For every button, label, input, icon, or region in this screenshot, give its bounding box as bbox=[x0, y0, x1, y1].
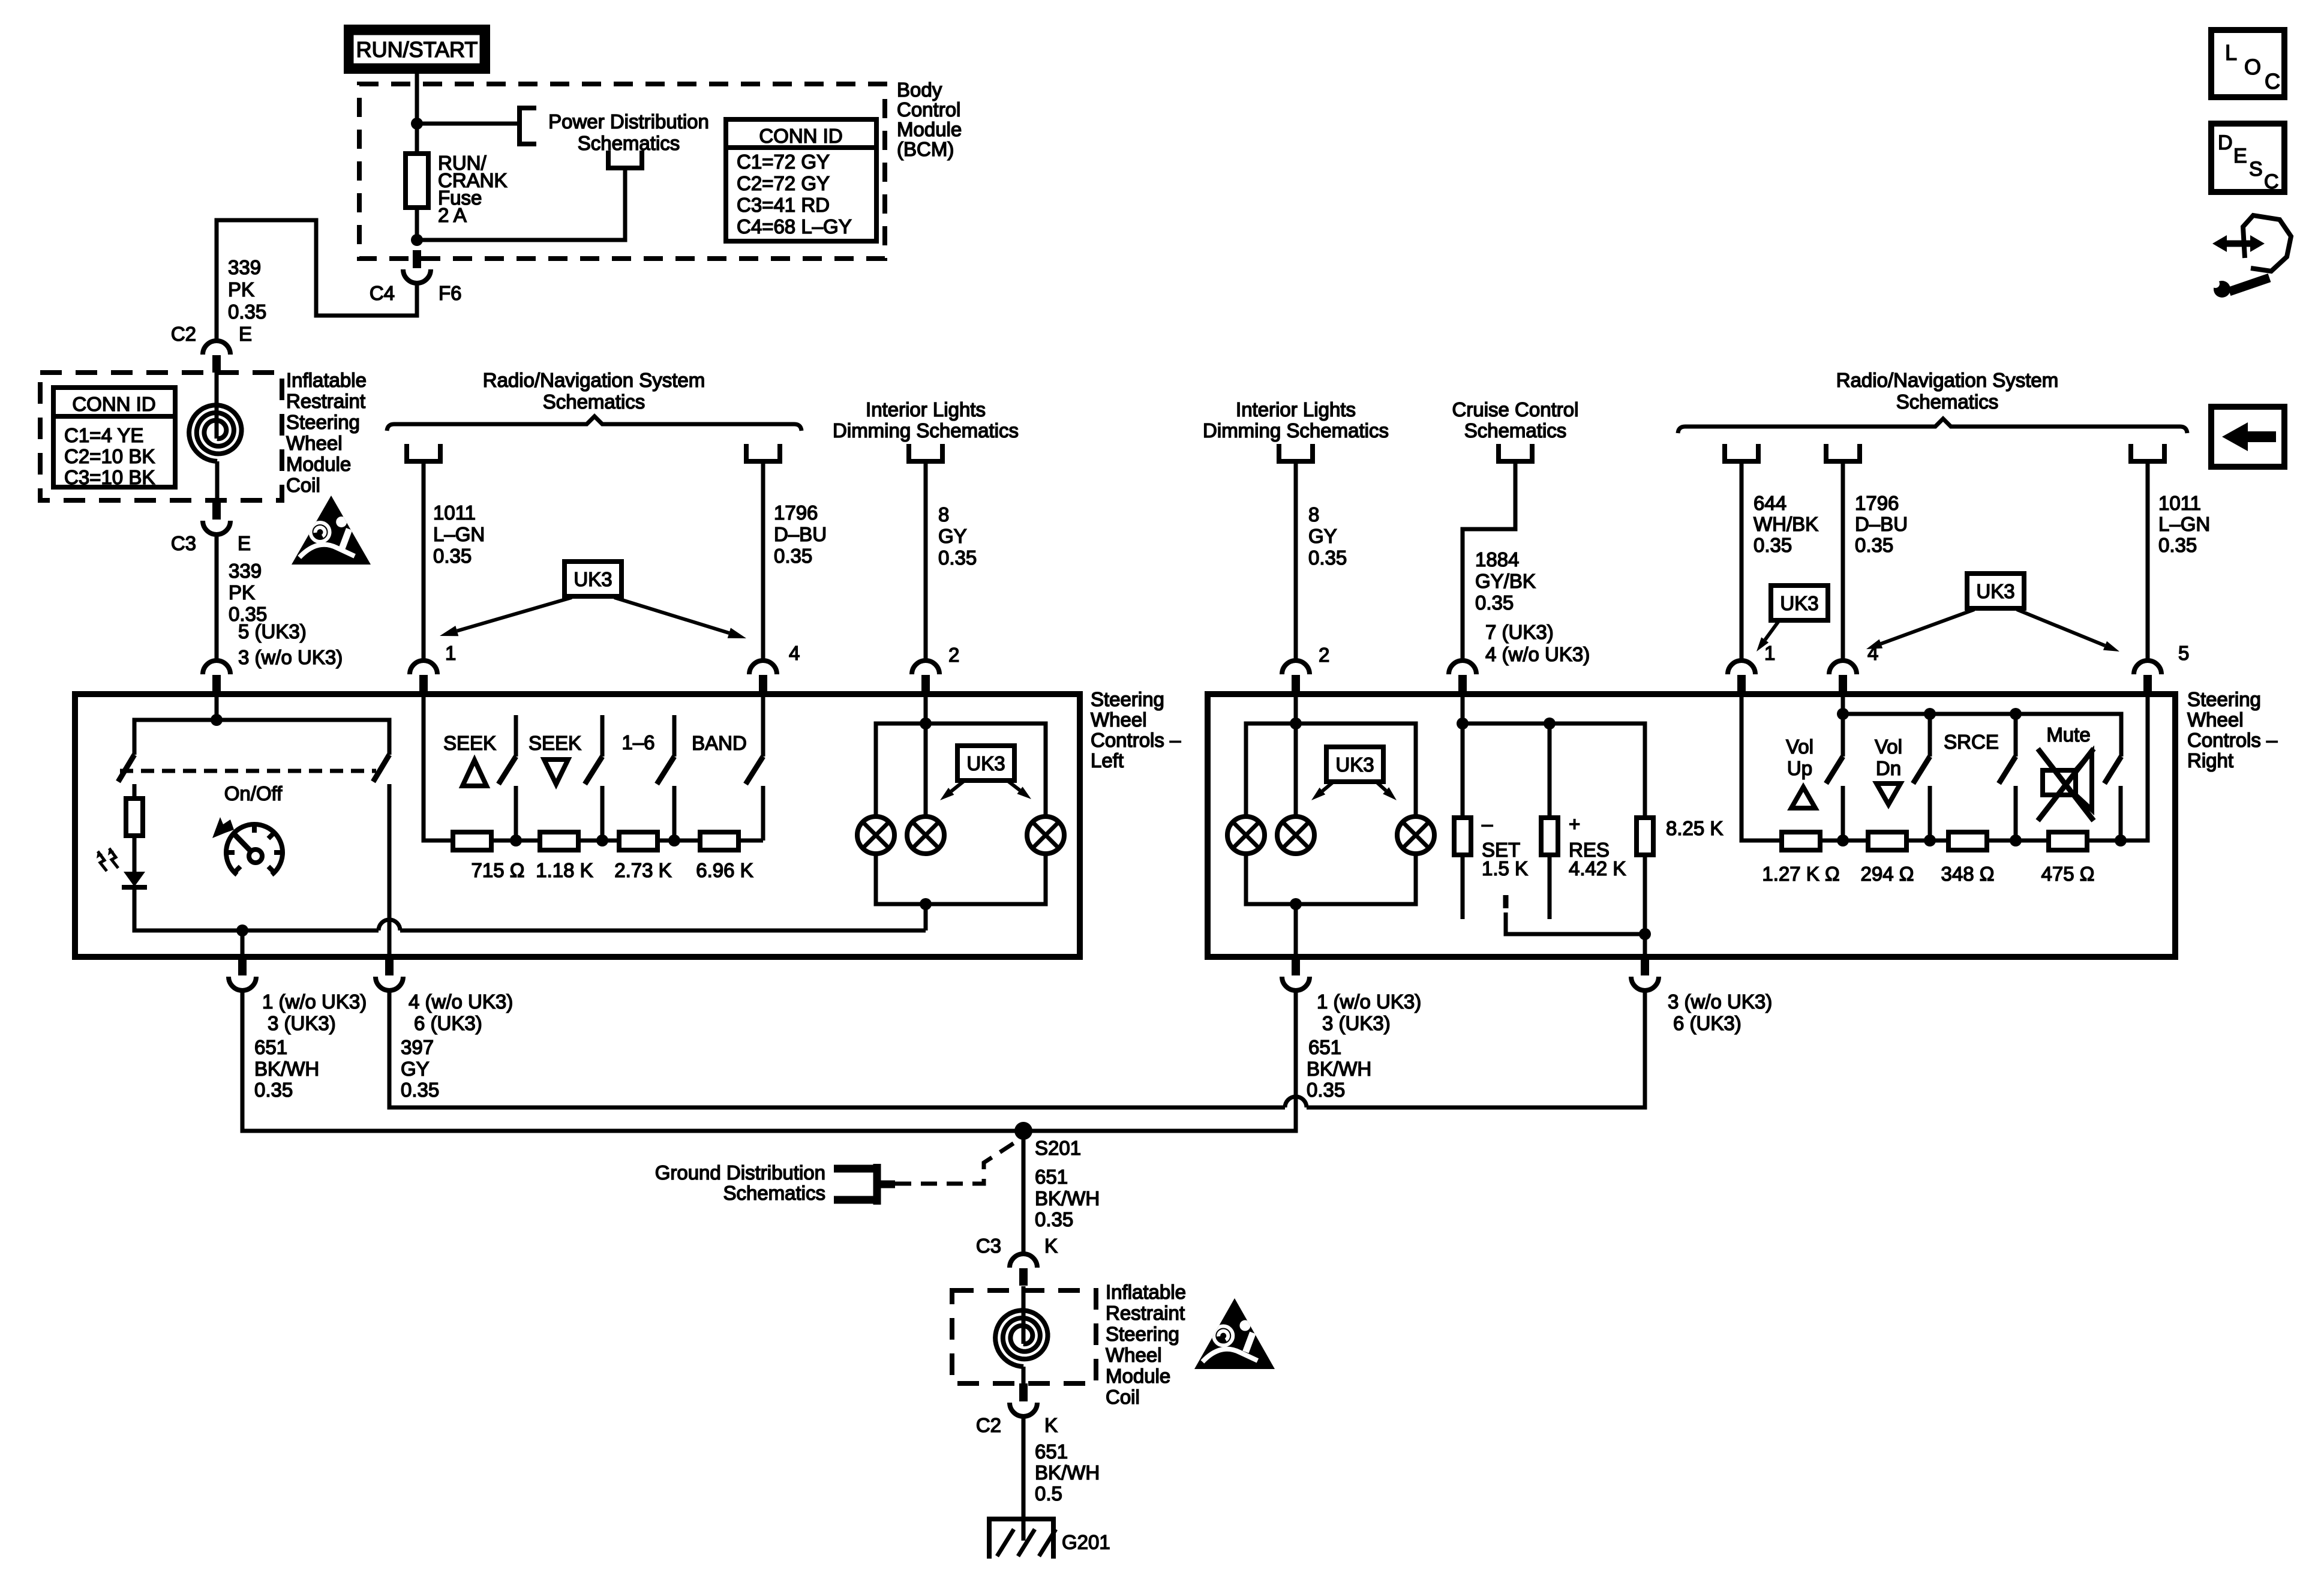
svg-text:1.27 K Ω: 1.27 K Ω bbox=[1762, 863, 1839, 885]
svg-text:2: 2 bbox=[1319, 644, 1329, 666]
wire hop over on/off right leg bbox=[379, 920, 400, 930]
svg-text:BK/WH: BK/WH bbox=[254, 1058, 319, 1080]
resistor SET 1.5K bbox=[1454, 818, 1471, 855]
svg-text:UK3: UK3 bbox=[1780, 592, 1818, 614]
BCM dashed box bbox=[359, 84, 885, 259]
on/off switch left contact bbox=[118, 755, 134, 782]
wire lamps to return bbox=[924, 904, 928, 930]
switch Mute bbox=[2104, 757, 2121, 784]
svg-text:3 (UK3): 3 (UK3) bbox=[1322, 1012, 1391, 1034]
wire out of coil bbox=[215, 461, 220, 502]
svg-text:Dimming Schematics: Dimming Schematics bbox=[1203, 419, 1389, 442]
svg-text:0.35: 0.35 bbox=[938, 547, 977, 569]
wire pin5/3 into box bbox=[215, 694, 219, 720]
svg-text:Schematics: Schematics bbox=[723, 1182, 825, 1204]
junction dot to pin1/3 exit bbox=[236, 924, 248, 936]
svg-text:3 (w/o UK3): 3 (w/o UK3) bbox=[1668, 990, 1772, 1013]
svg-text:1884: 1884 bbox=[1475, 548, 1519, 571]
svg-text:651: 651 bbox=[1035, 1440, 1068, 1463]
svg-text:L–GN: L–GN bbox=[433, 523, 485, 545]
switch 1-6 bbox=[672, 715, 677, 757]
wire out of coil 2 bbox=[1022, 1367, 1026, 1383]
svg-text:C2: C2 bbox=[171, 323, 196, 345]
svg-text:On/Off: On/Off bbox=[224, 782, 283, 804]
UK3 arrow to pin4 wire bbox=[614, 598, 729, 633]
resistor 2.73K bbox=[619, 832, 657, 850]
svg-text:Schematics: Schematics bbox=[578, 132, 680, 154]
UK3 arrow to pin1 wire bbox=[457, 598, 572, 631]
resistor 348 ohm bbox=[1948, 832, 1987, 850]
bracket radio 1796 wire bbox=[1826, 444, 1860, 461]
svg-text:Module: Module bbox=[286, 453, 351, 475]
svg-text:Schematics: Schematics bbox=[1464, 419, 1567, 442]
connector pin4 right box bbox=[1829, 661, 1857, 674]
svg-text:6 (UK3): 6 (UK3) bbox=[1673, 1012, 1742, 1034]
junction dot tap1 bbox=[510, 834, 522, 846]
wire res branch bbox=[1548, 724, 1552, 818]
connector pin1 left box bbox=[410, 661, 437, 674]
svg-text:348 Ω: 348 Ω bbox=[1941, 863, 1995, 885]
svg-text:Control: Control bbox=[897, 98, 960, 121]
svg-text:2.73 K: 2.73 K bbox=[614, 859, 671, 881]
svg-text:Radio/Navigation System: Radio/Navigation System bbox=[1836, 369, 2059, 391]
svg-text:2 A: 2 A bbox=[438, 204, 467, 226]
connector pin 5/3 left box bbox=[203, 661, 230, 674]
switch Vol Dn bbox=[1928, 714, 1932, 757]
svg-text:Vol: Vol bbox=[1875, 736, 1902, 758]
svg-text:E: E bbox=[2233, 145, 2247, 167]
wire 651 BK/WH bus bbox=[242, 990, 1296, 1131]
svg-text:3 (UK3): 3 (UK3) bbox=[268, 1012, 336, 1034]
svg-text:651: 651 bbox=[1035, 1166, 1068, 1188]
svg-text:Wheel: Wheel bbox=[2187, 709, 2244, 731]
svg-text:Wheel: Wheel bbox=[1091, 709, 1147, 731]
svg-text:D: D bbox=[2218, 131, 2233, 154]
junction dot srce tap bbox=[2010, 834, 2022, 846]
svg-text:UK3: UK3 bbox=[1976, 580, 2014, 602]
LED indicator diode bbox=[124, 872, 145, 887]
switch BAND bbox=[761, 694, 765, 757]
resistor 715 ohm bbox=[453, 832, 491, 850]
resistor 6.96K bbox=[700, 832, 738, 850]
wire below set resistor bbox=[1461, 855, 1465, 919]
svg-text:Inflatable: Inflatable bbox=[1106, 1281, 1186, 1303]
bracket Power Distribution bbox=[520, 108, 536, 144]
wire into coil 2 bbox=[1022, 1286, 1026, 1344]
bracket ground distribution bbox=[834, 1164, 895, 1205]
fuse RUN/CRANK 2A F6 bbox=[406, 154, 428, 208]
wire cruise exit bbox=[1643, 934, 1647, 956]
svg-text:UK3: UK3 bbox=[1335, 754, 1374, 776]
svg-text:1 (w/o UK3): 1 (w/o UK3) bbox=[262, 990, 367, 1013]
dimmer cursor arrow bbox=[212, 817, 234, 838]
svg-text:Steering: Steering bbox=[286, 411, 360, 433]
lamps loop left box bbox=[876, 724, 1046, 816]
wire below res resistor bbox=[1548, 855, 1552, 919]
wire 1796 D-BU left bbox=[761, 461, 765, 661]
resistor 475 ohm bbox=[2049, 832, 2087, 850]
connector exit 3/6 right box bbox=[1641, 957, 1649, 975]
connector exit 4/6 left box bbox=[385, 957, 394, 975]
wire 397 GY bus bbox=[389, 990, 1285, 1107]
connector exit 1/3 right box bbox=[1292, 957, 1300, 975]
svg-text:BK/WH: BK/WH bbox=[1035, 1187, 1100, 1209]
connector pin7/4 right box bbox=[1449, 661, 1476, 674]
dimmer gauge icon bbox=[226, 824, 283, 875]
connector C2 coil bbox=[203, 341, 230, 355]
on/off switch top bus bbox=[134, 720, 389, 755]
junction dot cruise bbox=[1457, 718, 1469, 730]
svg-text:UK3: UK3 bbox=[574, 568, 612, 590]
bracket interior lights left bbox=[909, 444, 942, 461]
svg-text:S201: S201 bbox=[1035, 1137, 1081, 1159]
svg-text:3 (w/o UK3): 3 (w/o UK3) bbox=[238, 646, 343, 668]
wire lamps to exit right bbox=[1294, 904, 1298, 956]
svg-text:L–GN: L–GN bbox=[2158, 513, 2210, 535]
lamp 2 bbox=[907, 816, 944, 854]
wire RUN/START to fuse bbox=[415, 74, 419, 154]
bracket interior lights right bbox=[1279, 444, 1313, 461]
svg-text:0.35: 0.35 bbox=[401, 1079, 439, 1101]
svg-text:Steering: Steering bbox=[1106, 1323, 1179, 1345]
dashed pointer to S201 bbox=[895, 1139, 1020, 1184]
svg-text:C3=10 BK: C3=10 BK bbox=[64, 466, 155, 488]
bracket radio pin1 wire bbox=[407, 444, 440, 461]
svg-text:SEEK: SEEK bbox=[529, 732, 581, 754]
connector C2 column bbox=[1019, 1383, 1028, 1401]
bracket radio 1011 wire bbox=[2131, 444, 2164, 461]
icon arrow wrench bbox=[2218, 241, 2259, 247]
on/off mechanical link dashed bbox=[120, 769, 376, 773]
svg-text:Inflatable: Inflatable bbox=[286, 369, 367, 391]
svg-text:D–BU: D–BU bbox=[774, 523, 827, 545]
svg-text:0.35: 0.35 bbox=[1475, 592, 1514, 614]
svg-text:Controls –: Controls – bbox=[1091, 729, 1181, 751]
svg-text:1: 1 bbox=[445, 642, 456, 664]
svg-text:0.35: 0.35 bbox=[433, 545, 472, 567]
lamp 5 bbox=[1277, 816, 1314, 854]
connector pin5 right box bbox=[2134, 661, 2161, 674]
svg-text:E: E bbox=[238, 532, 251, 554]
UK3 callout lamps right bbox=[1326, 747, 1383, 782]
wire pin2 to lamps bbox=[924, 694, 928, 816]
svg-text:C2=72 GY: C2=72 GY bbox=[737, 172, 830, 194]
svg-text:C: C bbox=[2265, 69, 2280, 94]
lamps return wire bbox=[400, 929, 926, 933]
svg-text:G201: G201 bbox=[1062, 1531, 1110, 1553]
connector pin4 left box bbox=[749, 661, 777, 674]
svg-text:C4: C4 bbox=[370, 282, 395, 304]
switch SEEK up bbox=[514, 715, 518, 757]
wire exit pin1/3 bbox=[241, 930, 245, 956]
connector pin2 left box bbox=[912, 661, 939, 674]
power feed box RUN/START bbox=[344, 25, 490, 74]
svg-text:O: O bbox=[2244, 55, 2261, 79]
resistor RES 4.42K bbox=[1541, 818, 1558, 855]
wire LED to bottom rail bbox=[134, 887, 379, 930]
svg-text:S: S bbox=[2249, 158, 2263, 181]
svg-text:GY: GY bbox=[938, 525, 967, 547]
svg-text:RUN/START: RUN/START bbox=[356, 37, 478, 62]
wire 651 BK/WH 0.5 to ground bbox=[1022, 1415, 1026, 1541]
switch SEEK down bbox=[600, 715, 605, 757]
svg-text:4.42 K: 4.42 K bbox=[1569, 857, 1626, 879]
svg-text:Ground Distribution: Ground Distribution bbox=[655, 1161, 825, 1184]
svg-text:1796: 1796 bbox=[774, 502, 818, 524]
svg-text:2: 2 bbox=[948, 644, 959, 666]
wire 8 GY left bbox=[924, 461, 928, 661]
svg-text:651: 651 bbox=[254, 1036, 287, 1058]
svg-text:Right: Right bbox=[2187, 749, 2233, 772]
svg-text:CONN ID: CONN ID bbox=[759, 125, 842, 147]
connector pin1 right box bbox=[1728, 661, 1755, 674]
svg-text:Schematics: Schematics bbox=[1896, 391, 1999, 413]
svg-text:BK/WH: BK/WH bbox=[1035, 1461, 1100, 1484]
lamp 6 bbox=[1397, 816, 1434, 854]
svg-text:CONN ID: CONN ID bbox=[72, 393, 155, 415]
svg-text:Steering: Steering bbox=[1091, 688, 1164, 710]
resistor 1.18K bbox=[540, 832, 578, 850]
svg-text:Module: Module bbox=[1106, 1365, 1170, 1387]
svg-text:1796: 1796 bbox=[1855, 492, 1899, 514]
svg-text:4 (w/o UK3): 4 (w/o UK3) bbox=[409, 990, 513, 1013]
wire pin2 to lamps right bbox=[1294, 694, 1298, 816]
steering wheel controls right box bbox=[1208, 694, 2175, 957]
connector C4 F6 bbox=[413, 250, 421, 268]
svg-text:0.35: 0.35 bbox=[1753, 534, 1792, 556]
svg-text:SRCE: SRCE bbox=[1944, 731, 1999, 753]
svg-text:GY: GY bbox=[1308, 525, 1337, 547]
junction dot pin4 rail bbox=[1837, 708, 1849, 720]
LED arrows bbox=[109, 848, 118, 868]
svg-text:K: K bbox=[1044, 1235, 1058, 1257]
svg-text:339: 339 bbox=[228, 256, 261, 278]
brace radio/nav left bbox=[387, 416, 801, 431]
svg-text:D–BU: D–BU bbox=[1855, 513, 1908, 535]
junction dot vol up tap bbox=[1837, 834, 1849, 846]
bracket cruise control bbox=[1499, 444, 1532, 461]
CONN ID table BCM bbox=[726, 119, 876, 241]
svg-text:PK: PK bbox=[229, 581, 255, 604]
resistor on/off branch bbox=[133, 784, 137, 798]
svg-text:1.18 K: 1.18 K bbox=[536, 859, 593, 881]
wire on/off right leg to exit bbox=[388, 784, 392, 956]
svg-text:8: 8 bbox=[938, 503, 949, 526]
svg-text:C3=41 RD: C3=41 RD bbox=[737, 194, 830, 216]
junction dot res bbox=[1544, 718, 1556, 730]
junction dot lamps top bbox=[920, 718, 932, 730]
cruise switch contact bbox=[1503, 895, 1509, 908]
svg-text:L: L bbox=[2225, 40, 2237, 65]
svg-text:0.35: 0.35 bbox=[1307, 1079, 1345, 1101]
svg-text:WH/BK: WH/BK bbox=[1753, 513, 1818, 535]
svg-text:Dn: Dn bbox=[1876, 757, 1901, 779]
svg-text:6.96 K: 6.96 K bbox=[696, 859, 753, 881]
svg-text:UK3: UK3 bbox=[966, 752, 1005, 775]
svg-text:5 (UK3): 5 (UK3) bbox=[238, 620, 307, 643]
svg-text:BK/WH: BK/WH bbox=[1307, 1058, 1371, 1080]
connector C3 column bbox=[1010, 1254, 1037, 1268]
wire 1011 L-GN left bbox=[422, 461, 426, 661]
svg-text:651: 651 bbox=[1308, 1036, 1341, 1058]
svg-text:C2=10 BK: C2=10 BK bbox=[64, 445, 155, 467]
junction dot on/off bbox=[211, 714, 223, 726]
wire pin1 to resistor rail bbox=[424, 694, 763, 840]
svg-text:Wheel: Wheel bbox=[286, 432, 343, 454]
svg-text:Left: Left bbox=[1091, 749, 1124, 772]
svg-text:Controls –: Controls – bbox=[2187, 729, 2278, 751]
wire 1011 L-GN right bbox=[2146, 461, 2150, 661]
svg-text:Restraint: Restraint bbox=[286, 390, 365, 412]
wire junction to bracket stem bbox=[417, 168, 625, 240]
connector exit 1/3 left box bbox=[238, 957, 247, 975]
svg-text:0.35: 0.35 bbox=[254, 1079, 293, 1101]
cruise top rail bbox=[1463, 724, 1645, 818]
svg-text:294 Ω: 294 Ω bbox=[1861, 863, 1914, 885]
svg-text:Wheel: Wheel bbox=[1106, 1344, 1162, 1366]
svg-text:8: 8 bbox=[1308, 503, 1319, 526]
resistor 294 ohm bbox=[1868, 832, 1906, 850]
wire cruise into box bbox=[1461, 694, 1465, 818]
svg-text:K: K bbox=[1044, 1414, 1058, 1436]
wire 644 WH/BK bbox=[1740, 461, 1744, 661]
svg-text:Power Distribution: Power Distribution bbox=[548, 110, 709, 133]
switch SRCE bbox=[2014, 714, 2018, 757]
svg-text:0.5: 0.5 bbox=[1035, 1482, 1062, 1505]
svg-text:F6: F6 bbox=[439, 282, 462, 304]
switch Vol Up bbox=[1826, 757, 1843, 784]
SIR coil dashed box bbox=[40, 373, 282, 500]
svg-text:E: E bbox=[239, 323, 252, 345]
svg-text:Steering: Steering bbox=[2187, 688, 2261, 710]
resistor 8.25K bbox=[1637, 818, 1653, 855]
icon box left arrow bbox=[2211, 407, 2284, 467]
junction dot srce top bbox=[2010, 708, 2022, 720]
junction dot vol dn tap bbox=[1924, 834, 1936, 846]
svg-text:Coil: Coil bbox=[286, 474, 320, 496]
svg-text:SEEK: SEEK bbox=[443, 732, 496, 754]
cruise common wire bbox=[1506, 912, 1645, 934]
svg-text:Module: Module bbox=[897, 118, 962, 140]
junction dot tap2 bbox=[596, 834, 608, 846]
svg-text:1–6: 1–6 bbox=[621, 731, 654, 754]
svg-text:0.35: 0.35 bbox=[1308, 547, 1347, 569]
svg-text:8.25 K: 8.25 K bbox=[1666, 817, 1723, 839]
svg-text:Schematics: Schematics bbox=[543, 391, 645, 413]
svg-text:6 (UK3): 6 (UK3) bbox=[414, 1012, 482, 1034]
svg-text:+: + bbox=[1569, 813, 1580, 835]
bracket to power distribution wire bbox=[608, 151, 642, 168]
lamps loop right box bbox=[1246, 724, 1416, 816]
svg-text:PK: PK bbox=[228, 278, 254, 301]
lamp 3 bbox=[1027, 816, 1064, 854]
UK3 callout lamps left bbox=[957, 746, 1014, 781]
svg-text:C3: C3 bbox=[976, 1235, 1001, 1257]
svg-text:397: 397 bbox=[401, 1036, 434, 1058]
audio top rail bbox=[1843, 714, 2121, 757]
svg-text:C1=72 GY: C1=72 GY bbox=[737, 151, 830, 173]
svg-text:C2: C2 bbox=[976, 1414, 1001, 1436]
svg-text:GY: GY bbox=[401, 1058, 430, 1080]
svg-text:Interior Lights: Interior Lights bbox=[1236, 398, 1356, 421]
svg-text:4: 4 bbox=[789, 642, 800, 664]
svg-text:475 Ω: 475 Ω bbox=[2041, 863, 2095, 885]
junction dot lamps top right bbox=[1290, 718, 1302, 730]
svg-text:1.5 K: 1.5 K bbox=[1482, 857, 1528, 879]
ground G201 bbox=[987, 1517, 1056, 1521]
wire S201 to C3 bbox=[1022, 1131, 1026, 1254]
svg-text:1: 1 bbox=[1764, 642, 1775, 664]
lamp 1 bbox=[857, 816, 894, 854]
CONN ID table coil bbox=[53, 388, 175, 487]
svg-text:GY/BK: GY/BK bbox=[1475, 570, 1536, 592]
svg-text:Mute: Mute bbox=[2046, 724, 2090, 746]
junction dot mute tap bbox=[2115, 834, 2127, 846]
svg-text:C4=68 L–GY: C4=68 L–GY bbox=[737, 215, 852, 238]
svg-text:0.35: 0.35 bbox=[228, 301, 266, 323]
svg-text:Body: Body bbox=[897, 79, 942, 101]
svg-text:Radio/Navigation System: Radio/Navigation System bbox=[483, 369, 705, 391]
wire resistor to LED bbox=[133, 836, 137, 872]
wire 339 PK from C4 to C2 bbox=[217, 220, 417, 341]
resistor 1.27K bbox=[1782, 832, 1820, 850]
bracket radio pin4 wire bbox=[746, 444, 780, 461]
svg-text:339: 339 bbox=[229, 560, 262, 582]
svg-text:4: 4 bbox=[1867, 642, 1878, 664]
icon box DESC bbox=[2211, 124, 2284, 192]
junction dot vol dn top bbox=[1924, 708, 1936, 720]
UK3 callout right radio bbox=[1967, 574, 2024, 608]
svg-text:Interior Lights: Interior Lights bbox=[866, 398, 986, 421]
icon box LOC bbox=[2211, 30, 2284, 97]
UK3 callout box left radio bbox=[565, 562, 621, 596]
wire into coil bbox=[215, 373, 219, 439]
UK3 callout 644 wire bbox=[1771, 586, 1828, 620]
svg-text:0.35: 0.35 bbox=[1855, 534, 1893, 556]
brace radio/nav right bbox=[1678, 419, 2187, 433]
svg-text:Restraint: Restraint bbox=[1106, 1302, 1185, 1324]
splice S201 bbox=[1014, 1122, 1032, 1140]
svg-text:1011: 1011 bbox=[2158, 492, 2201, 514]
junction dot bbox=[411, 118, 423, 130]
wire 339 PK to steering wheel controls left bbox=[215, 533, 219, 661]
wire pin1 to audio rail bbox=[1742, 694, 2148, 840]
lamp 4 bbox=[1227, 816, 1265, 854]
svg-text:7 (UK3): 7 (UK3) bbox=[1485, 621, 1554, 643]
svg-text:5: 5 bbox=[2178, 642, 2189, 664]
svg-text:0.35: 0.35 bbox=[2158, 534, 2197, 556]
wire 1796 D-BU right bbox=[1841, 461, 1845, 661]
svg-text:(BCM): (BCM) bbox=[897, 138, 954, 160]
wire 8 GY right bbox=[1294, 461, 1298, 661]
steering wheel controls left box bbox=[75, 694, 1080, 957]
junction dot cruise common bbox=[1639, 928, 1651, 940]
svg-text:C1=4 YE: C1=4 YE bbox=[64, 424, 143, 446]
coil U2 spiral bbox=[995, 1310, 1047, 1367]
wire hop 397 over riser bbox=[1285, 1097, 1307, 1107]
svg-text:BAND: BAND bbox=[692, 732, 747, 754]
svg-text:–: – bbox=[1482, 813, 1493, 835]
connector pin2 right box bbox=[1282, 661, 1310, 674]
svg-text:C: C bbox=[2264, 170, 2279, 193]
svg-text:Vol: Vol bbox=[1786, 736, 1813, 758]
wire 1884 GY/BK bbox=[1463, 461, 1515, 661]
wire fuse to junction bbox=[415, 208, 419, 240]
bracket radio 644 wire bbox=[1725, 444, 1758, 461]
svg-text:Up: Up bbox=[1787, 757, 1812, 779]
svg-text:Cruise Control: Cruise Control bbox=[1452, 398, 1579, 421]
svg-text:1011: 1011 bbox=[433, 502, 476, 524]
